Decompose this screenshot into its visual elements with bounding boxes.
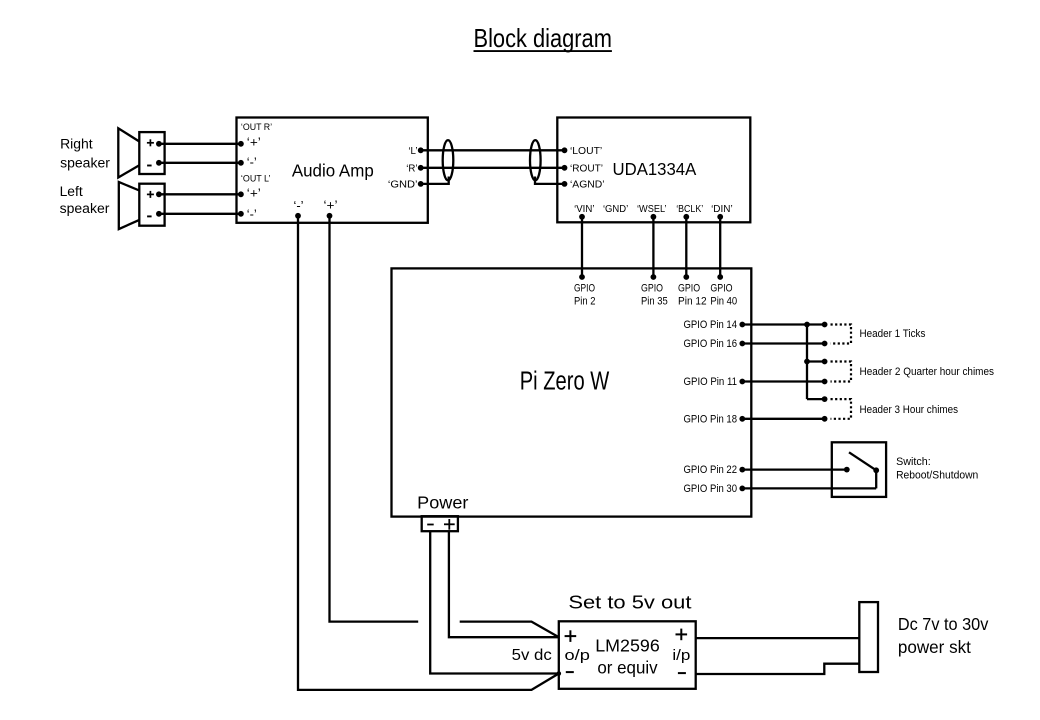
svg-text:‘+’: ‘+’	[324, 198, 338, 212]
svg-text:Header 1 Ticks: Header 1 Ticks	[860, 328, 926, 340]
svg-text:‘VIN’: ‘VIN’	[574, 204, 594, 215]
svg-text:o/p: o/p	[565, 648, 590, 664]
svg-text:5v dc: 5v dc	[512, 647, 552, 664]
amp pin OUT L -	[238, 207, 257, 221]
UDA pin WSEL	[637, 204, 667, 220]
svg-text:Pin 12: Pin 12	[678, 295, 707, 307]
svg-text:LM2596: LM2596	[595, 635, 660, 655]
node GPIO Pin 40	[710, 274, 737, 307]
svg-text:or equiv: or equiv	[597, 658, 658, 678]
svg-text:‘OUT R’: ‘OUT R’	[241, 121, 272, 132]
wire i/p minus to socket	[696, 664, 860, 674]
svg-text:Pin 2: Pin 2	[574, 295, 596, 307]
svg-text:Pi Zero W: Pi Zero W	[520, 368, 610, 396]
node GPIO Pin 11	[684, 376, 746, 388]
UDA pin DIN	[711, 204, 733, 220]
svg-text:‘L’: ‘L’	[408, 146, 417, 157]
amp pin R	[406, 163, 423, 174]
node GPIO Pin 16	[684, 338, 746, 350]
svg-text:‘OUT L’: ‘OUT L’	[241, 173, 271, 184]
svg-text:GPIO Pin 16: GPIO Pin 16	[684, 338, 738, 350]
wire amp plus to regulator	[460, 622, 559, 638]
svg-text:‘ROUT’: ‘ROUT’	[570, 164, 603, 175]
wire pin18 to header3 bottom	[742, 416, 827, 422]
wire left speaker - to amp	[159, 213, 241, 215]
svg-text:Power: Power	[417, 493, 468, 513]
wire R amp to UDA	[421, 167, 565, 169]
wire pin11 to header2 bottom	[742, 379, 827, 385]
svg-text:i/p: i/p	[672, 648, 690, 664]
node GPIO Pin 35	[641, 274, 668, 307]
svg-text:‘AGND’: ‘AGND’	[570, 180, 605, 191]
svg-text:GPIO Pin 30: GPIO Pin 30	[684, 483, 738, 495]
right speaker symbol	[118, 128, 164, 177]
amp bottom pin -	[294, 199, 304, 219]
power socket	[859, 602, 878, 672]
header 2 connector	[831, 362, 995, 382]
header 3 connector	[831, 399, 959, 419]
amp pin OUT R -	[238, 156, 257, 170]
amp pin L	[408, 146, 423, 157]
wire pin22 to switch	[742, 468, 847, 470]
label power socket	[898, 614, 989, 657]
wire Pi power plus	[449, 531, 559, 637]
svg-text:‘BCLK’: ‘BCLK’	[676, 204, 703, 215]
svg-text:GPIO Pin 11: GPIO Pin 11	[684, 376, 738, 388]
cable ellipse left	[443, 140, 454, 180]
cable ellipse right	[530, 140, 541, 180]
svg-text:UDA1334A: UDA1334A	[613, 159, 697, 179]
svg-text:‘+’: ‘+’	[247, 136, 261, 150]
wire i/p plus to socket	[696, 637, 860, 639]
svg-text:‘WSEL’: ‘WSEL’	[637, 204, 667, 215]
node output minus	[557, 671, 562, 676]
Audio Amp box	[237, 118, 428, 223]
svg-text:‘R’: ‘R’	[406, 163, 417, 174]
svg-text:‘-’: ‘-’	[294, 199, 304, 213]
svg-text:GPIO: GPIO	[678, 282, 700, 294]
svg-text:Right: Right	[60, 137, 93, 153]
node GPIO Pin 2	[574, 274, 596, 307]
svg-text:Header 3 Hour chimes: Header 3 Hour chimes	[860, 404, 959, 416]
svg-text:‘GND’: ‘GND’	[388, 179, 418, 190]
regulator LM2596 box	[559, 621, 696, 689]
svg-text:Dc 7v to 30v: Dc 7v to 30v	[898, 614, 989, 634]
switch S1	[832, 442, 886, 497]
UDA1334A box	[557, 118, 750, 223]
UDA pin LOUT	[562, 146, 603, 157]
wire switch to pin30	[742, 487, 876, 489]
node GPIO Pin 18	[684, 413, 746, 425]
node GPIO Pin 14	[684, 319, 746, 331]
wire pin14 to header1 top	[742, 322, 827, 328]
label Left speaker	[60, 184, 110, 217]
svg-text:power skt: power skt	[898, 637, 971, 657]
svg-text:Audio Amp: Audio Amp	[292, 161, 374, 181]
UDA pin ROUT	[562, 164, 603, 175]
svg-text:GPIO Pin 22: GPIO Pin 22	[684, 464, 738, 476]
wire right speaker + to amp	[159, 143, 241, 145]
left speaker symbol	[119, 182, 165, 229]
amp pin OUT L +	[238, 173, 271, 201]
wire WSEL to GPIO Pin 35	[652, 217, 654, 277]
regulator pin o/p plus	[565, 630, 590, 672]
svg-text:Left: Left	[60, 184, 83, 200]
svg-text:‘LOUT’: ‘LOUT’	[570, 146, 602, 157]
wire left speaker + to amp	[159, 193, 241, 195]
UDA pin GND bottom	[603, 204, 628, 215]
wire DIN to GPIO Pin 40	[719, 217, 721, 277]
header 1 connector	[831, 325, 926, 344]
Pi Zero W box	[392, 268, 752, 516]
svg-text:GPIO Pin 14: GPIO Pin 14	[684, 319, 738, 331]
power connector on Pi	[422, 516, 458, 531]
svg-text:‘-’: ‘-’	[247, 207, 257, 221]
label Right speaker	[60, 137, 110, 172]
svg-text:‘-’: ‘-’	[247, 156, 257, 170]
svg-text:speaker: speaker	[60, 156, 110, 172]
amp pin GND	[388, 179, 424, 190]
svg-text:GPIO: GPIO	[710, 282, 732, 294]
node GPIO Pin 30	[684, 483, 746, 495]
wire Pi power minus	[430, 531, 559, 673]
svg-text:Pin 35: Pin 35	[641, 295, 668, 307]
svg-text:Pin 40: Pin 40	[710, 295, 737, 307]
node GPIO Pin 12	[678, 274, 707, 307]
svg-text:GPIO: GPIO	[641, 282, 663, 294]
wire right speaker - to amp	[159, 162, 241, 164]
wire GND UDA side	[535, 177, 565, 184]
wire GND amp side	[421, 177, 449, 184]
UDA pin AGND	[562, 180, 605, 191]
amp bottom pin +	[324, 198, 338, 218]
wire bus to header2 top	[807, 359, 827, 365]
svg-text:GPIO: GPIO	[574, 282, 595, 294]
amp pin OUT R +	[238, 121, 272, 150]
node GPIO Pin 22	[684, 464, 746, 476]
svg-text:‘+’: ‘+’	[247, 186, 261, 200]
title Block diagram	[474, 23, 612, 53]
regulator pin i/p plus	[672, 629, 690, 674]
wire VIN to GPIO Pin 2	[581, 217, 583, 277]
UDA pin VIN	[574, 204, 594, 220]
svg-text:speaker: speaker	[60, 201, 110, 217]
wire BCLK to GPIO Pin 12	[685, 217, 687, 277]
wire amp minus down	[298, 216, 559, 690]
svg-text:Header 2 Quarter hour chimes: Header 2 Quarter hour chimes	[860, 366, 995, 378]
wire pin16 to header1 bottom	[742, 341, 827, 347]
label switch	[896, 456, 978, 482]
svg-text:‘GND’: ‘GND’	[603, 204, 628, 215]
svg-text:Set to 5v out: Set to 5v out	[568, 592, 691, 613]
wire amp plus down	[330, 216, 419, 622]
svg-text:GPIO Pin 18: GPIO Pin 18	[684, 413, 738, 425]
svg-text:Block diagram: Block diagram	[474, 23, 612, 53]
svg-text:‘DIN’: ‘DIN’	[711, 204, 733, 215]
wire L amp to UDA	[421, 149, 565, 151]
svg-text:Reboot/Shutdown: Reboot/Shutdown	[896, 469, 978, 481]
wire bus vertical	[804, 325, 810, 400]
wire bus to header3 top	[807, 396, 827, 402]
UDA pin BCLK	[676, 204, 703, 220]
svg-text:Switch:: Switch:	[896, 456, 931, 468]
